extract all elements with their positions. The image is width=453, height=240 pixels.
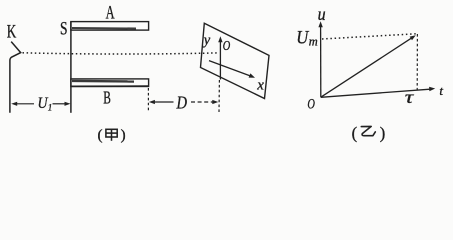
D dimension right arrow (dashed tail) [191, 101, 213, 103]
svg-text:K: K [7, 22, 17, 43]
plate A [71, 22, 149, 31]
svg-text:u: u [318, 4, 326, 24]
plate B [71, 79, 149, 87]
cathode K electrode [10, 42, 21, 113]
svg-text:(: ( [98, 128, 103, 144]
svg-text:y: y [202, 32, 211, 48]
svg-text:A: A [106, 3, 115, 24]
svg-text:x: x [256, 77, 264, 93]
svg-text:O: O [307, 97, 315, 113]
svg-text:1: 1 [48, 102, 53, 112]
y axis dashed continuation [218, 80, 220, 112]
svg-text:m: m [309, 33, 318, 48]
svg-text:O: O [223, 39, 231, 54]
svg-text:τ: τ [405, 87, 414, 107]
svg-text:B: B [103, 87, 111, 107]
y axis arrow [218, 36, 222, 42]
caption glyph yi [361, 126, 375, 135]
svg-text:(: ( [352, 124, 358, 143]
plate A inner smear [72, 27, 136, 30]
U1 dimension left arrow [11, 102, 17, 106]
svg-text:S: S [60, 18, 68, 39]
x axis [209, 61, 251, 76]
u axis arrow [318, 21, 322, 27]
dotted Um line [322, 34, 416, 39]
t axis [321, 89, 430, 97]
caption glyph jia [106, 129, 117, 141]
U1 dimension right arrow [53, 103, 67, 105]
svg-text:): ) [121, 128, 126, 144]
plate B inner smear [72, 80, 134, 83]
svg-text:U: U [296, 28, 309, 49]
dashed vertical at tau [416, 34, 418, 90]
ramp diagonal [321, 38, 412, 97]
dashed line right of plates [147, 88, 149, 112]
y axis [219, 42, 221, 80]
beam dotted line [23, 53, 219, 54]
D dimension left arrow [149, 100, 155, 104]
svg-text:t: t [439, 83, 443, 98]
plate B bottom thick edge [71, 85, 149, 87]
u axis [320, 27, 322, 98]
svg-text:): ) [380, 124, 386, 143]
screen parallelogram [201, 23, 270, 98]
slit plate S vertical line [70, 21, 72, 112]
svg-text:D: D [176, 92, 187, 112]
